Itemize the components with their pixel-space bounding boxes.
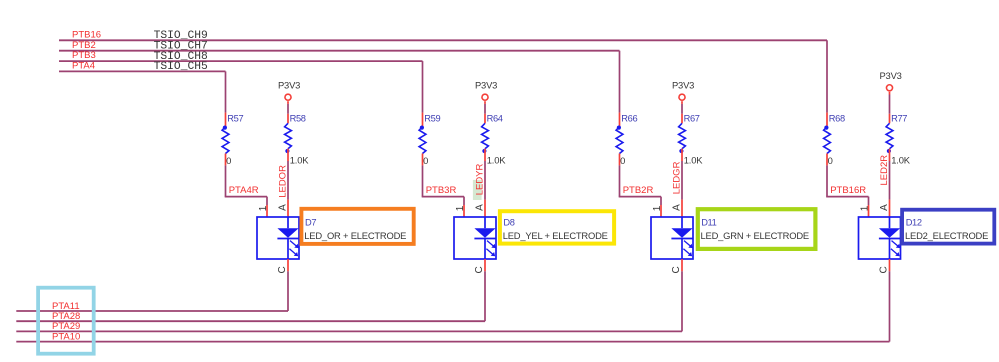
svg-text:LEDOR: LEDOR <box>277 165 288 198</box>
svg-text:1: 1 <box>258 205 269 211</box>
wire net PTA10 horizontal bus <box>16 341 889 343</box>
svg-text:A: A <box>475 204 486 211</box>
svg-text:D8: D8 <box>503 217 514 227</box>
wire R64 to anode of D8 <box>484 161 486 217</box>
wire P3V3 to R77 <box>889 95 891 114</box>
wire net TSIO_CH5 vertical drop <box>225 71 227 112</box>
svg-text:1: 1 <box>652 205 663 211</box>
label box D11 (#a7d518) <box>698 209 816 249</box>
svg-text:P3V3: P3V3 <box>278 80 300 91</box>
wire net PTA28 horizontal bus <box>16 320 485 322</box>
wire P3V3 to R64 <box>484 104 486 114</box>
wire net TSIO_CH9 horizontal bus <box>59 39 827 41</box>
wire net TSIO_CH5 horizontal bus <box>59 70 226 72</box>
wire cathode of D8 to net PTA28 <box>484 259 486 321</box>
wire R68 to pin 1 of D12 <box>826 165 868 217</box>
LED D7 diode symbol <box>277 217 298 259</box>
svg-text:A: A <box>879 204 890 211</box>
svg-text:PTA10: PTA10 <box>52 331 80 342</box>
wire cathode of D11 to net PTA29 <box>681 259 683 331</box>
svg-text:0: 0 <box>423 155 428 166</box>
svg-text:LED2_ELECTRODE: LED2_ELECTRODE <box>905 230 988 241</box>
LED D8 diode symbol <box>474 217 495 259</box>
svg-text:P3V3: P3V3 <box>475 80 497 91</box>
LED D11 component box <box>651 217 693 259</box>
svg-text:A: A <box>278 204 289 211</box>
power symbol P3V3 column 4 <box>880 70 902 94</box>
svg-text:1.0K: 1.0K <box>487 155 506 166</box>
svg-text:LEDYR: LEDYR <box>474 163 485 195</box>
LED D12 component box <box>859 217 901 259</box>
svg-text:0: 0 <box>226 155 231 166</box>
label box D12 (#3b3fc4) <box>902 210 994 244</box>
svg-text:LED_GRN + ELECTRODE: LED_GRN + ELECTRODE <box>701 230 809 241</box>
LED D7 component box <box>257 217 299 259</box>
resistor R58 value 1.0K <box>285 114 310 166</box>
LED D8 component box <box>454 217 496 259</box>
highlight on net LEDYR <box>473 180 482 200</box>
svg-text:R59: R59 <box>424 114 440 124</box>
LED D11 diode symbol <box>671 217 692 259</box>
svg-text:1: 1 <box>455 205 466 211</box>
svg-text:C: C <box>671 266 682 273</box>
wire P3V3 to R67 <box>681 104 683 114</box>
label box D7 (#f57d20) <box>301 209 413 244</box>
svg-text:0: 0 <box>620 155 625 166</box>
svg-text:P3V3: P3V3 <box>672 80 694 91</box>
svg-text:LED_YEL + ELECTRODE: LED_YEL + ELECTRODE <box>503 230 608 241</box>
svg-text:C: C <box>474 266 485 273</box>
wire R59 to pin 1 of D8 <box>422 165 464 217</box>
svg-text:C: C <box>879 266 890 273</box>
svg-text:D7: D7 <box>305 217 316 227</box>
wire R66 to pin 1 of D11 <box>619 165 661 217</box>
svg-text:PTA4: PTA4 <box>72 61 95 72</box>
svg-text:LED2R: LED2R <box>879 155 890 186</box>
wire cathode of D7 to net PTA11 <box>287 259 289 311</box>
svg-text:1: 1 <box>860 205 871 211</box>
svg-text:A: A <box>672 204 683 211</box>
svg-text:R57: R57 <box>227 114 243 124</box>
svg-text:1.0K: 1.0K <box>290 155 309 166</box>
wire net PTA11 horizontal bus <box>16 310 288 312</box>
svg-text:D12: D12 <box>906 217 922 227</box>
svg-text:LEDGR: LEDGR <box>671 161 682 194</box>
svg-text:R66: R66 <box>621 114 637 124</box>
wire net TSIO_CH7 horizontal bus <box>59 50 620 52</box>
resistor R67 value 1.0K <box>679 114 704 166</box>
svg-text:R68: R68 <box>829 114 845 124</box>
wire net TSIO_CH9 vertical drop <box>826 40 828 112</box>
svg-text:C: C <box>277 266 288 273</box>
svg-text:R67: R67 <box>684 114 700 124</box>
resistor R77 value 1.0K <box>886 114 911 166</box>
LED D12 diode symbol <box>879 217 900 259</box>
svg-text:R77: R77 <box>891 114 907 124</box>
svg-text:D11: D11 <box>701 217 716 227</box>
hierarchical port group box (teal) <box>38 288 94 354</box>
svg-text:PTB16R: PTB16R <box>830 185 866 196</box>
svg-text:TSIO_CH5: TSIO_CH5 <box>154 61 208 73</box>
wire R58 to anode of D7 <box>287 161 289 217</box>
resistor R57 value 0 <box>222 113 243 166</box>
wire net TSIO_CH7 vertical drop <box>619 51 621 113</box>
svg-text:PTB3R: PTB3R <box>426 185 457 196</box>
resistor R68 value 0 <box>824 113 845 166</box>
power symbol P3V3 column 3 <box>672 80 694 104</box>
wire net TSIO_CH8 vertical drop <box>422 61 424 113</box>
svg-text:R64: R64 <box>487 114 503 124</box>
wire P3V3 to R58 <box>287 104 289 114</box>
svg-text:PTB2R: PTB2R <box>623 185 654 196</box>
wire R67 to anode of D11 <box>681 161 683 217</box>
svg-text:1.0K: 1.0K <box>891 155 910 166</box>
wire R77 to anode of D12 <box>889 161 891 217</box>
wire net PTA29 horizontal bus <box>16 330 682 332</box>
resistor R59 value 0 <box>419 113 440 166</box>
resistor R66 value 0 <box>616 113 637 166</box>
power symbol P3V3 column 1 <box>278 80 300 104</box>
svg-text:1.0K: 1.0K <box>684 155 703 166</box>
svg-text:P3V3: P3V3 <box>880 70 902 81</box>
svg-text:0: 0 <box>828 155 833 166</box>
resistor R64 value 1.0K <box>482 114 507 166</box>
svg-text:PTA4R: PTA4R <box>229 185 259 196</box>
svg-text:PTB2: PTB2 <box>72 40 96 51</box>
svg-text:PTB16: PTB16 <box>72 29 101 40</box>
svg-text:LED_OR + ELECTRODE: LED_OR + ELECTRODE <box>304 230 406 241</box>
wire cathode of D12 to net PTA10 <box>889 259 891 342</box>
wire net TSIO_CH8 horizontal bus <box>59 60 423 62</box>
svg-text:R58: R58 <box>290 114 306 124</box>
power symbol P3V3 column 2 <box>475 80 497 104</box>
wire R57 to pin 1 of D7 <box>225 165 267 217</box>
label box D8 (#fbe606) <box>500 211 614 243</box>
